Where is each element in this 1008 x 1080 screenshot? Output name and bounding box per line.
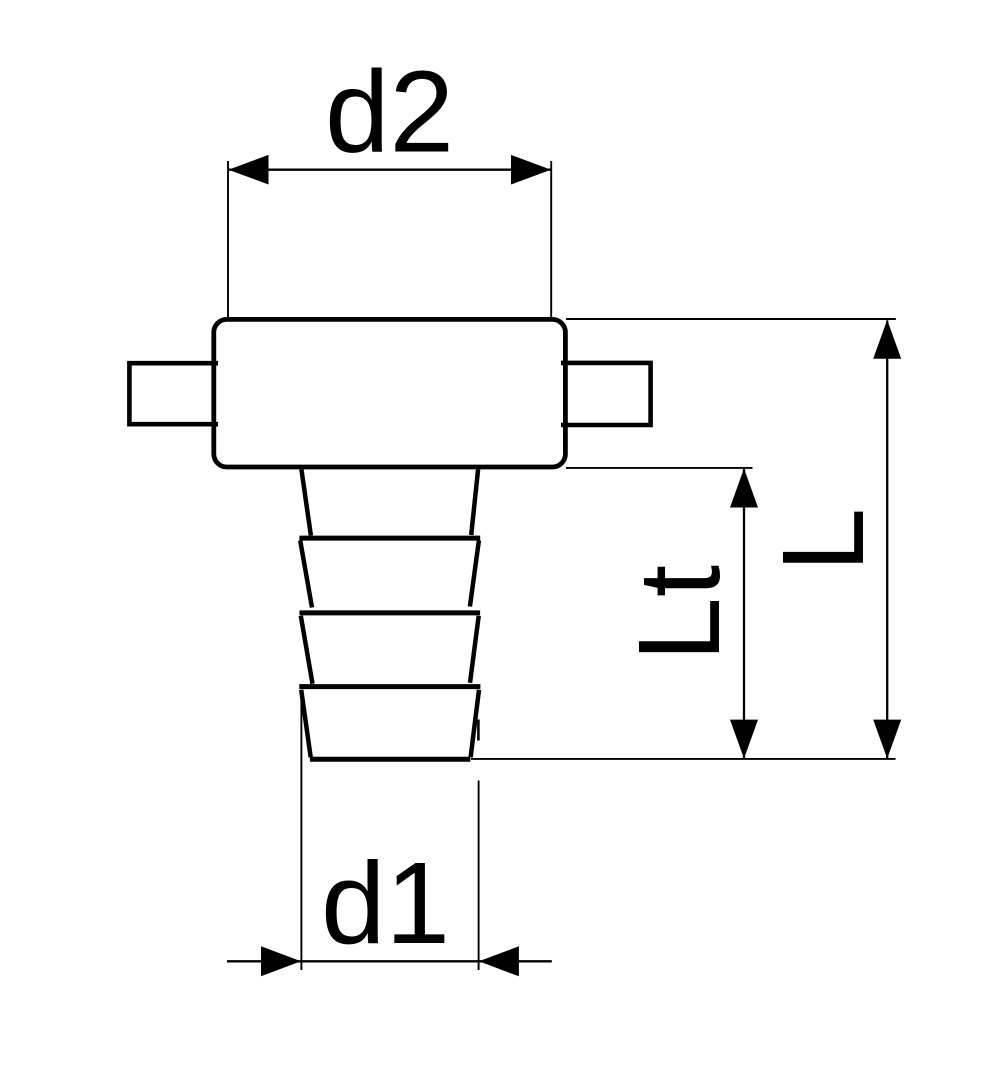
dimension d1 arrow left [261,946,301,976]
dimension d2 line [228,169,551,171]
svg-text:Lt: Lt [614,565,744,662]
dimension Lt arrow bottom [730,720,758,759]
dimension L line [886,321,888,759]
extension line bottom for L and Lt [471,758,896,760]
barb ridge 3 [300,610,481,615]
extension line for Lt top [566,467,753,469]
dimension L arrow top [873,320,901,359]
svg-text:L: L [758,508,888,573]
dimension d2 arrow left [229,155,269,185]
barb ring 3 right edge [470,616,479,683]
barb ring 2 left edge [300,541,312,608]
dimension d1 line [227,960,552,962]
barb ring 1 left edge [301,469,311,535]
barb ring 2 right edge [470,541,479,607]
barb ring 4 right edge [471,690,479,758]
barb ridge 2 [299,536,480,541]
dimension L arrow bottom [873,720,901,759]
right wing tab [561,363,651,425]
barb ridge 4 [299,684,480,689]
dimension d1 witness line right [478,781,480,971]
svg-text:d1: d1 [321,838,450,968]
dimension Lt arrow top [730,469,758,508]
dimension d1 arrow right [479,946,519,976]
barb ring 4 bottom edge [310,757,470,762]
dimension d1 witness line left [300,691,302,970]
extension line top for L [566,318,896,320]
barb ring 4 left edge [301,690,311,758]
stray segment right of ring 4 [477,720,480,741]
dimension d2 witness line left [227,161,229,319]
dimension Lt line [743,469,745,759]
barb ring 3 left edge [301,616,313,684]
svg-text:d2: d2 [325,46,454,176]
left wing tab [129,363,218,424]
dimension d2 witness line right [550,161,552,319]
fitting body nut [214,319,566,467]
dimension d2 arrow right [511,155,551,185]
barb ring 1 right edge [471,469,478,535]
